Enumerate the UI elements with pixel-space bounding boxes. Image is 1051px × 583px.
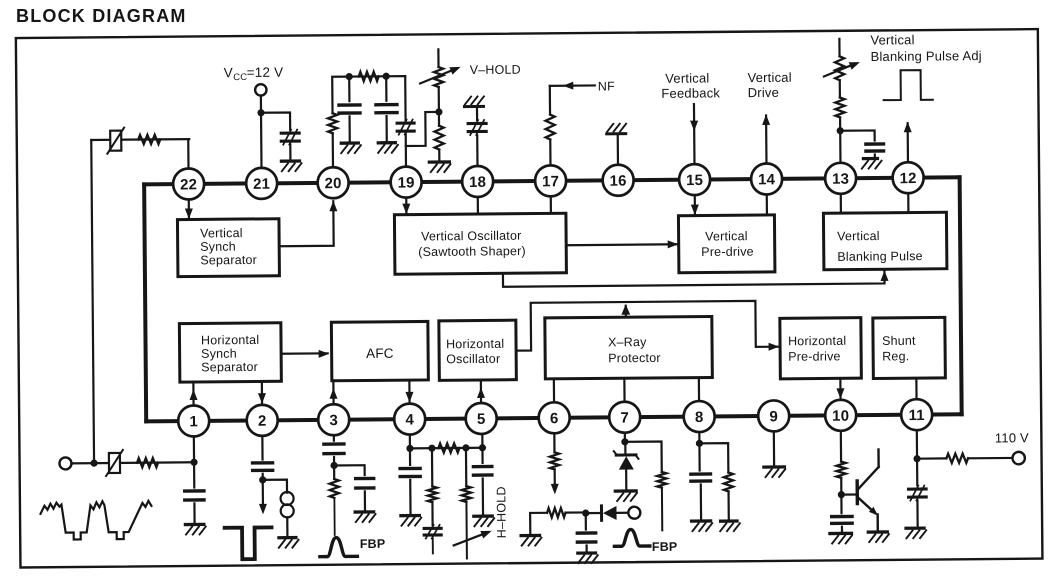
- wire pin3 to U6: [332, 381, 334, 404]
- block U6 AFC: [331, 321, 428, 380]
- svg-text:X–Ray: X–Ray: [608, 335, 647, 349]
- svg-text:6: 6: [550, 410, 559, 427]
- node input junction: [90, 460, 97, 467]
- pin 7: [609, 402, 640, 433]
- blanking pulse waveform: [883, 70, 932, 100]
- ground above pin18 (inverted): [464, 96, 484, 106]
- node D: [462, 444, 469, 451]
- wire pin19 to U2: [405, 198, 407, 215]
- svg-text:20: 20: [325, 175, 342, 192]
- wire pin4 down: [409, 435, 411, 449]
- svg-text:Synch: Synch: [200, 240, 236, 254]
- svg-text:Vertical: Vertical: [200, 226, 243, 240]
- wire node to zener: [624, 442, 626, 453]
- label Vertical Blanking Pulse Adj: [870, 32, 982, 64]
- svg-text:Horizontal: Horizontal: [788, 334, 846, 349]
- svg-text:18: 18: [469, 174, 486, 191]
- svg-text:FBP: FBP: [652, 540, 678, 554]
- pin 13: [825, 163, 856, 194]
- wire node C down: [431, 448, 434, 486]
- wire U8 top arrow: [625, 306, 627, 317]
- capacitor C12 (hatched): [424, 525, 441, 539]
- svg-text:13: 13: [832, 171, 849, 188]
- svg-text:Vertical Oscillator: Vertical Oscillator: [421, 229, 521, 244]
- arrowhead into U9 left: [769, 343, 780, 351]
- svg-text:(Sawtooth Shaper): (Sawtooth Shaper): [418, 244, 526, 259]
- wire R11 to C12: [431, 502, 433, 525]
- svg-text:NF: NF: [598, 79, 615, 93]
- wire pin3 down: [333, 435, 335, 440]
- VR2 wiper arrow: [824, 62, 860, 76]
- wire riser to top rail: [332, 76, 405, 113]
- label FBP 2: [652, 540, 678, 554]
- FBP pulse waveform 2: [614, 529, 650, 546]
- svg-text:11: 11: [908, 407, 924, 424]
- ground below C14: [578, 553, 598, 563]
- ground left of VR4: [521, 535, 541, 545]
- svg-text:Vertical: Vertical: [870, 32, 914, 47]
- wire top-left chain: [91, 138, 189, 141]
- node pin13 junction: [837, 127, 844, 134]
- ground below C3: [378, 143, 398, 153]
- wire node to D1: [586, 512, 601, 514]
- svg-text:Horizontal: Horizontal: [201, 333, 259, 348]
- resistor R3: [328, 113, 337, 133]
- arrowhead pin10 down: [836, 388, 844, 399]
- wire pin19 riser: [404, 76, 407, 166]
- svg-text:Protector: Protector: [608, 351, 661, 365]
- wire L1 to ground: [286, 517, 288, 537]
- wire C15 to ground: [700, 484, 703, 521]
- arrowhead NF (left): [563, 82, 574, 90]
- wire V-HOLD branch to pin19 riser: [406, 112, 440, 146]
- wire node to coil: [263, 480, 287, 493]
- svg-text:Blanking Pulse Adj: Blanking Pulse Adj: [870, 48, 981, 64]
- wire C1 to ground: [289, 144, 291, 161]
- resistor R8: [137, 458, 158, 467]
- node pin11 junction: [913, 455, 920, 462]
- svg-text:Vertical: Vertical: [665, 70, 709, 85]
- potentiometer VR1 V-HOLD: [434, 49, 444, 112]
- capacitor C17 (hatched): [908, 485, 926, 500]
- wire U5 to pin2: [261, 381, 263, 404]
- wire pin7 down: [624, 433, 626, 442]
- wire C9 to node: [333, 457, 335, 465]
- wire node to pin13: [839, 131, 841, 163]
- arrowhead into U3: [691, 205, 699, 216]
- node pin2 junction: [259, 476, 266, 483]
- arrowhead pin3 up: [329, 388, 337, 399]
- node pin7 junction: [621, 438, 628, 445]
- ground below C17: [906, 528, 926, 538]
- resistor R4: [359, 72, 379, 81]
- svg-text:110 V: 110 V: [995, 430, 1029, 445]
- wire pin5 to U7: [480, 380, 482, 403]
- svg-text:Vertical: Vertical: [705, 229, 748, 243]
- FBP pulse waveform 1: [320, 537, 358, 556]
- wire C8 to node: [262, 474, 264, 480]
- pin 10: [825, 400, 856, 431]
- label 110 V: [995, 430, 1029, 445]
- wire node to C16: [840, 495, 842, 513]
- svg-text:12: 12: [899, 170, 916, 187]
- wire U8 to pin6: [553, 379, 555, 402]
- wire C7 to ground: [193, 503, 195, 524]
- node pin5 junction: [479, 444, 486, 451]
- block U1 Vertical Synch Separator: [177, 219, 279, 277]
- ground below C2: [341, 143, 361, 153]
- node pin21 junction: [257, 109, 264, 116]
- block U2 Vertical Oscillator (Sawtooth Shaper): [394, 213, 566, 274]
- ground below R16: [720, 521, 740, 531]
- wire pin2 arrow down: [262, 480, 264, 505]
- svg-text:FBP: FBP: [360, 537, 386, 551]
- pin 6: [539, 402, 570, 433]
- wire pin1 to U5: [192, 382, 194, 405]
- node pin8 junction: [696, 440, 703, 447]
- pin 18: [462, 166, 493, 197]
- wire pin12 to U4: [907, 193, 909, 212]
- Vcc label: [224, 65, 284, 84]
- svg-text:14: 14: [758, 171, 776, 188]
- wire into pin 22 top: [187, 139, 189, 168]
- arrowhead into U1: [185, 208, 193, 219]
- title BLOCK DIAGRAM: [16, 6, 187, 26]
- arrowhead pin6 wiper: [551, 484, 559, 495]
- wire pin22 to U1: [188, 200, 190, 219]
- ground below pin9: [764, 467, 785, 477]
- resistor R13: [550, 452, 559, 469]
- pin 20: [317, 167, 348, 198]
- ground below L1: [279, 538, 299, 548]
- arrowhead pin5 up: [477, 387, 485, 398]
- svg-text:Oscillator: Oscillator: [446, 352, 500, 366]
- wire U1 to pin20: [279, 201, 334, 246]
- svg-text:21: 21: [253, 176, 270, 193]
- label Vertical Feedback: [661, 70, 720, 101]
- svg-text:Vertical: Vertical: [747, 70, 791, 85]
- video waveform sketch: [40, 501, 151, 540]
- VR3 wiper arrow H-HOLD: [454, 531, 492, 546]
- wire C16 to ground: [841, 527, 843, 534]
- wire base: [841, 493, 855, 495]
- svg-text:AFC: AFC: [366, 346, 394, 361]
- capacitor C4 (hatched): [397, 120, 414, 135]
- capacitor C9: [324, 444, 344, 454]
- wire pin20 riser: [332, 133, 334, 167]
- wire R18 to terminal: [968, 457, 1012, 460]
- arrowhead to pin20: [329, 201, 337, 212]
- label NF: [598, 79, 615, 93]
- node pin6 pot junction: [582, 510, 589, 517]
- resistor R7 (slashed-box): [106, 450, 123, 476]
- wire U10 to pin11: [915, 378, 917, 399]
- wire node D down: [465, 448, 468, 486]
- ground above pin16 (inverted): [607, 124, 627, 134]
- wire C14 to ground: [586, 545, 588, 552]
- node pin4 junction: [406, 445, 413, 452]
- capacitor C5 (hatched): [468, 120, 486, 135]
- wire node to C14: [585, 513, 587, 529]
- wire pin8 branch right: [699, 443, 728, 473]
- svg-text:16: 16: [610, 173, 627, 190]
- capacitor C13: [473, 466, 491, 475]
- arrowhead U8 up: [621, 304, 630, 315]
- wire pin6 down: [553, 433, 555, 452]
- ground below C1: [281, 161, 301, 171]
- terminal 110V: [1012, 452, 1025, 465]
- node pin10 junction: [838, 491, 845, 498]
- arrowhead pin2 down: [258, 393, 266, 404]
- svg-text:H–HOLD: H–HOLD: [494, 486, 508, 538]
- wire C11 to ground: [409, 480, 412, 516]
- resistor R10: [438, 443, 459, 452]
- capacitor C2: [339, 105, 360, 113]
- capacitor C7: [185, 491, 204, 500]
- node VR1 junction: [435, 108, 442, 115]
- svg-text:V–HOLD: V–HOLD: [470, 63, 521, 77]
- ground below C13: [474, 516, 494, 526]
- arrowhead drive up: [762, 114, 770, 125]
- ground below C10: [355, 512, 375, 522]
- wire C3 to ground: [385, 116, 387, 142]
- capacitor C3: [376, 105, 397, 113]
- wire U7 to U9: [516, 301, 778, 351]
- svg-text:Shunt: Shunt: [882, 334, 916, 348]
- terminal FBP input: [628, 507, 640, 519]
- block U5 Horizontal Synch Separator: [179, 323, 281, 382]
- block U4 Vertical Blanking Pulse: [823, 212, 946, 270]
- pin 8: [684, 401, 715, 432]
- node pin3 junction: [330, 462, 337, 469]
- wire U2 to U3: [566, 243, 677, 246]
- pin 4: [394, 403, 425, 434]
- pin 3: [318, 404, 349, 435]
- ground below C15: [692, 521, 713, 531]
- wire U9 to pin10: [839, 378, 841, 399]
- wire pin10 down: [840, 431, 842, 462]
- svg-text:15: 15: [686, 172, 703, 189]
- wire pin11 to R18: [917, 457, 946, 459]
- resistor R1 (slashed-box, top-left): [107, 128, 124, 154]
- svg-text:Feedback: Feedback: [661, 85, 720, 101]
- capacitor C1 (hatched): [281, 130, 299, 145]
- wire node to C10: [334, 465, 365, 475]
- block U9 Horizontal Pre-drive: [780, 318, 862, 379]
- capacitor C14: [577, 533, 595, 542]
- pin 1: [178, 405, 209, 436]
- wire D1 to terminal: [617, 512, 628, 514]
- arrowhead into U2: [402, 204, 410, 215]
- svg-text:Drive: Drive: [748, 85, 779, 100]
- wire C10 to ground: [364, 491, 366, 512]
- wire U8 to pin8: [698, 378, 700, 401]
- wire C13 to ground: [482, 478, 485, 516]
- wire C12 tail: [432, 538, 434, 553]
- node A: [346, 73, 353, 80]
- resistor R14: [547, 508, 565, 517]
- resistor R2: [138, 135, 160, 144]
- label H-HOLD: [494, 486, 508, 538]
- label V-HOLD: [470, 63, 521, 77]
- inductor L1: [281, 492, 294, 518]
- svg-text:10: 10: [832, 408, 849, 425]
- node C: [428, 445, 435, 452]
- wire R14 to node: [566, 511, 586, 513]
- svg-text:22: 22: [180, 176, 197, 193]
- resistor R6: [835, 97, 844, 130]
- svg-text:Pre-drive: Pre-drive: [788, 349, 841, 363]
- wire pin17 to U2: [550, 196, 552, 213]
- svg-text:Separator: Separator: [201, 360, 258, 374]
- arrowhead feedback down: [690, 121, 698, 132]
- svg-text:=12 V: =12 V: [247, 65, 284, 80]
- capacitor C15: [691, 474, 711, 481]
- terminal Vcc: [255, 84, 266, 95]
- capacitor C8: [253, 463, 273, 471]
- block U7 Horizontal Oscillator: [439, 320, 517, 380]
- wire U6 to pin4: [408, 380, 410, 403]
- wire pin9 down: [773, 431, 776, 467]
- wire pin5 down: [481, 434, 483, 463]
- label FBP 1: [360, 537, 386, 551]
- svg-text:V: V: [224, 65, 233, 80]
- pin 5: [466, 403, 497, 434]
- wire node to C6: [840, 130, 874, 140]
- arrowhead into U4 bottom: [880, 270, 888, 281]
- node B: [383, 73, 390, 80]
- svg-text:2: 2: [258, 413, 267, 430]
- wire pin8 down: [698, 432, 701, 470]
- arrowhead into U3 left: [668, 240, 679, 248]
- svg-text:3: 3: [329, 412, 338, 429]
- resistor R18: [946, 454, 968, 463]
- capacitor C10: [356, 478, 374, 488]
- IC body outline: [144, 177, 962, 421]
- wire pin11 down: [916, 430, 919, 485]
- wire Vertical Feedback: [693, 104, 696, 164]
- capacitor C6: [866, 144, 884, 151]
- svg-text:Separator: Separator: [200, 253, 257, 267]
- resistor R9: [329, 465, 339, 535]
- arrowhead pin12 up: [904, 122, 912, 133]
- wire node A down: [348, 77, 350, 101]
- wire NF: [550, 84, 595, 87]
- wire input to pin1: [71, 462, 194, 463]
- svg-text:Vertical: Vertical: [837, 229, 880, 243]
- svg-text:Synch: Synch: [201, 347, 237, 361]
- sync pulse waveform: [225, 527, 272, 559]
- wire R16 to ground: [727, 491, 729, 521]
- wire U8 to pin7: [623, 378, 625, 401]
- pin 16: [602, 165, 633, 196]
- block U3 Vertical Pre-drive: [678, 215, 774, 273]
- block U8 X-Ray Protector: [545, 316, 713, 378]
- potentiometer VR2: [835, 39, 845, 98]
- ground below D2: [615, 491, 637, 501]
- wire U2 bottom to U4 bottom: [503, 270, 885, 287]
- wire pin4 node to C11: [409, 448, 411, 464]
- svg-text:7: 7: [620, 410, 629, 427]
- svg-text:19: 19: [398, 174, 415, 191]
- resistor R5: [434, 112, 444, 162]
- wire C6 to ground: [874, 154, 876, 157]
- wire C17 to ground: [916, 500, 918, 528]
- wire pin15 to U3: [694, 195, 696, 215]
- svg-text:Blanking Pulse: Blanking Pulse: [837, 249, 923, 264]
- svg-text:9: 9: [769, 408, 778, 425]
- resistor R16: [724, 472, 733, 491]
- pin 11: [901, 399, 932, 430]
- terminal input: [59, 457, 71, 469]
- svg-text:8: 8: [695, 409, 704, 426]
- ground below C16: [830, 533, 852, 543]
- ground below C6: [862, 158, 882, 168]
- wire pin14 to U3: [766, 194, 768, 214]
- wire Vcc to pin21: [260, 96, 263, 168]
- wire node B down: [385, 76, 387, 100]
- pin 15: [679, 164, 710, 195]
- wire pin2 down: [261, 436, 263, 460]
- svg-text:Horizontal: Horizontal: [446, 337, 504, 352]
- wire pin4-pin5 rail: [410, 447, 482, 450]
- label Vertical Drive: [747, 70, 791, 100]
- ground below R5: [429, 162, 450, 172]
- wire R13 arrow: [554, 469, 556, 485]
- pin 19: [390, 166, 421, 197]
- svg-text:4: 4: [405, 411, 414, 428]
- wire zener to ground: [625, 470, 627, 491]
- ground below Q1 emitter: [868, 532, 889, 542]
- wire pin16 riser: [617, 134, 619, 165]
- pin 2: [247, 405, 278, 436]
- wire R15 tail: [661, 488, 663, 531]
- svg-text:1: 1: [189, 413, 198, 430]
- wire R17 to node: [840, 478, 842, 495]
- node pin1 junction: [190, 459, 197, 466]
- arrowhead pin2 net down: [259, 504, 267, 515]
- pin 21: [246, 168, 277, 199]
- potentiometer VR4 rail: [530, 513, 547, 535]
- resistor R12 H-HOLD: [462, 486, 471, 502]
- pin 12: [892, 162, 923, 193]
- diode D2 zener: [614, 451, 639, 470]
- wire pin1 down: [193, 436, 196, 487]
- pin 22: [173, 168, 204, 199]
- resistor R17: [836, 462, 845, 478]
- block U10 Shunt Reg.: [873, 317, 946, 378]
- wire Vertical Drive: [765, 115, 768, 163]
- ground below C11: [401, 515, 421, 525]
- wire left vertical bus: [91, 140, 94, 463]
- ground below C7: [185, 524, 205, 534]
- resistor R11: [428, 486, 437, 502]
- svg-text:Reg.: Reg.: [882, 349, 909, 363]
- wire pin18 riser: [476, 109, 479, 166]
- pin 14: [751, 163, 782, 194]
- wire pin7 branch right: [625, 441, 662, 472]
- svg-text:BLOCK DIAGRAM: BLOCK DIAGRAM: [16, 6, 187, 26]
- arrowhead pin1 up: [189, 389, 197, 400]
- transistor Q1: [857, 450, 879, 533]
- svg-text:17: 17: [542, 173, 559, 190]
- wire pin17 riser: [545, 86, 555, 166]
- wire pin13 to U4: [840, 194, 842, 213]
- pin 9: [758, 400, 789, 431]
- svg-text:CC: CC: [233, 72, 247, 83]
- wire C2 to ground: [348, 116, 350, 142]
- capacitor C16: [832, 516, 852, 523]
